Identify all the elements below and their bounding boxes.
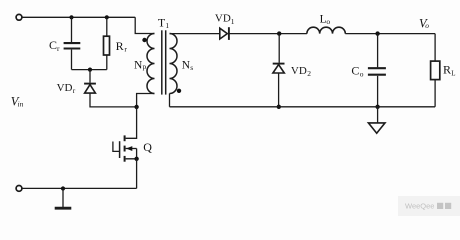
svg-text:1: 1 bbox=[231, 17, 235, 26]
wire Co top lead bbox=[377, 34, 379, 68]
input terminal top-left bbox=[16, 14, 22, 20]
wire VD2 cathode lead bbox=[278, 34, 280, 63]
svg-text:VD: VD bbox=[57, 82, 73, 94]
wire drain lead bbox=[126, 107, 137, 138]
svg-text:s: s bbox=[190, 63, 193, 72]
diode VDr bbox=[84, 84, 96, 94]
node secondary polarity dot bbox=[177, 89, 181, 93]
wire primary bottom lead bbox=[137, 94, 155, 107]
transistor Q body arrow bbox=[126, 146, 132, 151]
svg-text:o: o bbox=[360, 69, 364, 78]
wire source lead bbox=[126, 149, 137, 159]
wire secondary bottom lead bbox=[169, 94, 171, 107]
wire source to bottom rail bbox=[136, 159, 138, 189]
inductor Lo bbox=[307, 27, 345, 33]
svg-text:in: in bbox=[18, 99, 24, 108]
wire top rail bbox=[22, 16, 135, 18]
wire bottom rail primary side bbox=[22, 187, 136, 189]
wire ground stub bbox=[377, 107, 379, 123]
capacitor Cr bbox=[64, 43, 81, 48]
watermark text bbox=[405, 202, 451, 211]
wire VDr cathode lead bbox=[89, 70, 91, 83]
wire VD2 anode lead bbox=[278, 73, 280, 107]
svg-text:1: 1 bbox=[165, 21, 169, 30]
wire Rr top lead bbox=[106, 17, 108, 36]
node Co top junction bbox=[375, 31, 379, 35]
input terminal bottom-left bbox=[16, 186, 22, 192]
wire VDr anode to drain node bbox=[90, 93, 137, 107]
chassis ground bar bbox=[55, 207, 72, 210]
wire Cr bottom lead bbox=[71, 50, 73, 70]
diode VD2 bbox=[273, 64, 285, 73]
node Cr top junction bbox=[69, 15, 73, 19]
svg-text:p: p bbox=[143, 62, 147, 71]
svg-text:R: R bbox=[116, 39, 124, 53]
node drain junction bbox=[134, 105, 138, 109]
node VDr top junction bbox=[88, 68, 92, 72]
wire RL top lead bbox=[434, 34, 436, 62]
transistor Q gate bar bbox=[119, 141, 121, 158]
node VD2 top junction bbox=[277, 31, 281, 35]
wire Rr bottom lead bbox=[106, 55, 108, 70]
svg-text:L: L bbox=[451, 69, 455, 77]
wire bottom rail secondary side bbox=[170, 106, 436, 108]
wire rail corner to primary top bbox=[135, 17, 154, 33]
svg-text:r: r bbox=[73, 86, 76, 95]
wire RL bottom lead bbox=[434, 80, 436, 107]
svg-text:C: C bbox=[49, 38, 57, 52]
svg-text:r: r bbox=[57, 44, 60, 53]
svg-text:o: o bbox=[425, 21, 429, 30]
node primary polarity dot bbox=[142, 38, 146, 42]
node Co bottom junction bbox=[375, 105, 379, 109]
transformer T1 primary winding Np bbox=[147, 34, 155, 94]
wire chassis stub bbox=[62, 189, 64, 208]
resistor RL bbox=[431, 61, 440, 80]
transformer T1 secondary winding Ns bbox=[170, 34, 178, 94]
resistor Rr bbox=[104, 36, 110, 55]
node Rr top junction bbox=[105, 15, 109, 19]
transformer core line right bbox=[165, 30, 167, 94]
wire secondary top rail to VD1 bbox=[170, 33, 220, 35]
wire snubber bottom node bbox=[72, 69, 107, 71]
svg-text:2: 2 bbox=[307, 69, 311, 78]
wire gate lead bbox=[113, 142, 120, 152]
node VD2 bottom junction bbox=[277, 105, 281, 109]
ground bbox=[368, 123, 385, 133]
svg-text:VD: VD bbox=[291, 65, 307, 77]
svg-text:r: r bbox=[124, 44, 127, 53]
node chassis junction bbox=[61, 186, 65, 190]
transistor Q channel bar bbox=[124, 135, 126, 161]
svg-text:C: C bbox=[351, 64, 359, 78]
wire body lead bbox=[126, 148, 137, 150]
svg-text:Q: Q bbox=[143, 140, 152, 154]
node source junction bbox=[134, 157, 138, 161]
svg-text:o: o bbox=[326, 17, 330, 26]
capacitor Co bbox=[368, 68, 386, 75]
svg-text:VD: VD bbox=[215, 13, 231, 25]
svg-text:WeeQee: WeeQee bbox=[405, 202, 434, 211]
wire Co bottom lead bbox=[377, 76, 379, 107]
transformer core line left bbox=[161, 30, 163, 94]
wire VD1 to Lo bbox=[229, 33, 307, 35]
diode VD1 bbox=[220, 27, 229, 40]
wire Cr top lead bbox=[71, 17, 73, 42]
svg-text:R: R bbox=[443, 62, 451, 76]
watermark box bbox=[398, 196, 460, 216]
wire Lo to output corner bbox=[345, 33, 435, 35]
